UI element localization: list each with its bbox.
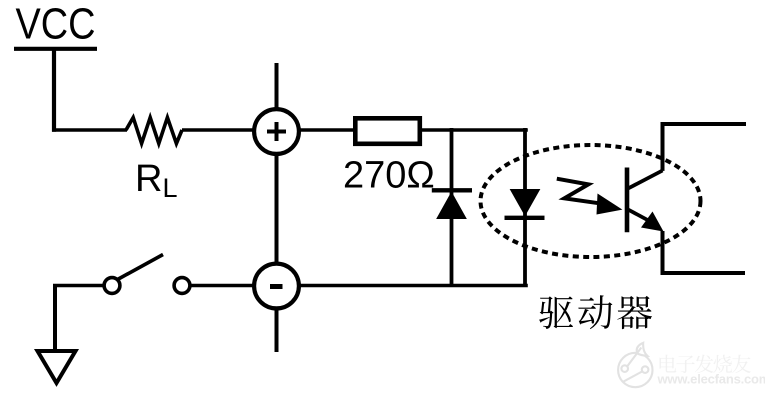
LED cathode bar [505,216,545,220]
switch pole circle left [104,278,120,294]
light arrow zigzag [557,179,603,204]
wire collector vertical [661,122,665,171]
wire bottom rail minus to LED [297,284,528,288]
wire bottom rail right [661,271,746,275]
wire 270 box to LED corner [422,128,528,132]
wire RL to source plus [182,128,256,132]
wire switch to source minus [188,284,258,288]
source positive terminal circle [254,109,299,154]
diode D1 cathode bar [432,188,472,192]
optocoupler dotted ellipse [481,145,701,257]
resistor RL zigzag [126,118,182,144]
wire top rail right [661,122,747,126]
wire emitter vertical [661,231,665,275]
wire source plus to 270ohm [297,128,355,132]
wire ground stem [53,284,57,352]
switch throw circle right [174,278,190,294]
wire LED branch vertical [523,128,527,287]
resistor 270 box [355,118,420,144]
wire VCC stem [52,49,56,132]
wire diode D1 branch vertical [450,128,454,287]
wire switch to ground corner [53,284,106,288]
label qudongqi (driver) [539,295,652,329]
plus sign [267,122,286,141]
phototransistor collector lead [628,171,663,189]
light arrow head [597,194,623,215]
watermark text elecfans [660,355,751,374]
svg-text:270Ω: 270Ω [343,155,435,197]
LED triangle [511,190,540,216]
minus sign [270,284,283,289]
wire center vertical through source [275,63,279,352]
watermark logo [618,343,652,387]
phototransistor emitter arrow head [641,212,664,232]
diode D1 triangle [437,193,466,219]
switch lever [118,255,164,280]
svg-text:VCC: VCC [16,1,96,49]
svg-text:www.elecfans.com: www.elecfans.com [657,372,765,387]
phototransistor base bar [625,168,630,233]
power rail VCC bar [14,47,97,51]
wire VCC to RL [52,128,127,132]
ground symbol [38,351,76,383]
phototransistor emitter lead [628,210,655,225]
source negative terminal circle [254,264,299,309]
